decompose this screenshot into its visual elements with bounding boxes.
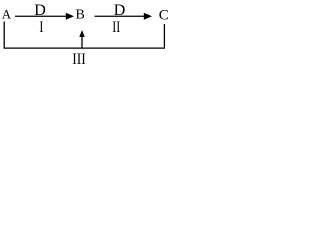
wire arrow B to C — [95, 15, 145, 17]
svg-text:C: C — [159, 8, 169, 24]
svg-text:I: I — [39, 18, 43, 36]
wire arrow up to B — [81, 37, 83, 48]
svg-text:B: B — [76, 8, 85, 23]
svg-text:D: D — [34, 2, 46, 19]
svg-text:II: II — [112, 18, 120, 36]
wire arrow A to B — [15, 15, 67, 17]
svg-text:III: III — [72, 51, 86, 68]
svg-text:D: D — [114, 2, 126, 19]
svg-text:A: A — [2, 7, 12, 22]
wire bottom bracket A to C — [4, 22, 164, 49]
